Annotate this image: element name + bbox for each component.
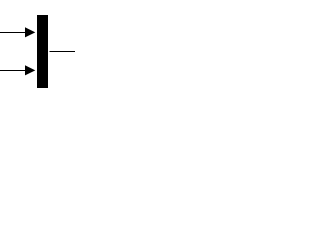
- wire: top input lead: [0, 32, 26, 34]
- bus bar (thick vertical bar): [37, 15, 48, 88]
- arrowhead: bottom input arrow: [25, 65, 35, 75]
- arrowhead: top input arrow: [25, 27, 35, 37]
- wire: bottom input lead: [0, 70, 26, 72]
- wire: right output lead: [50, 51, 76, 53]
